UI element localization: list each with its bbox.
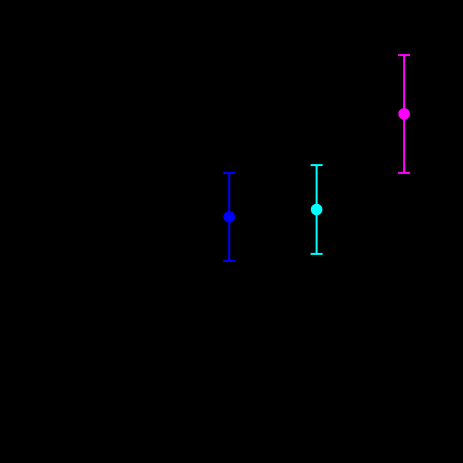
blue error bar series point 1 xyxy=(223,173,235,261)
cyan error bar series point 2 xyxy=(311,165,323,254)
cyan marker xyxy=(311,204,323,216)
blue marker xyxy=(223,211,235,223)
magenta error bar series point 3 xyxy=(398,55,410,173)
magenta marker xyxy=(398,108,410,120)
